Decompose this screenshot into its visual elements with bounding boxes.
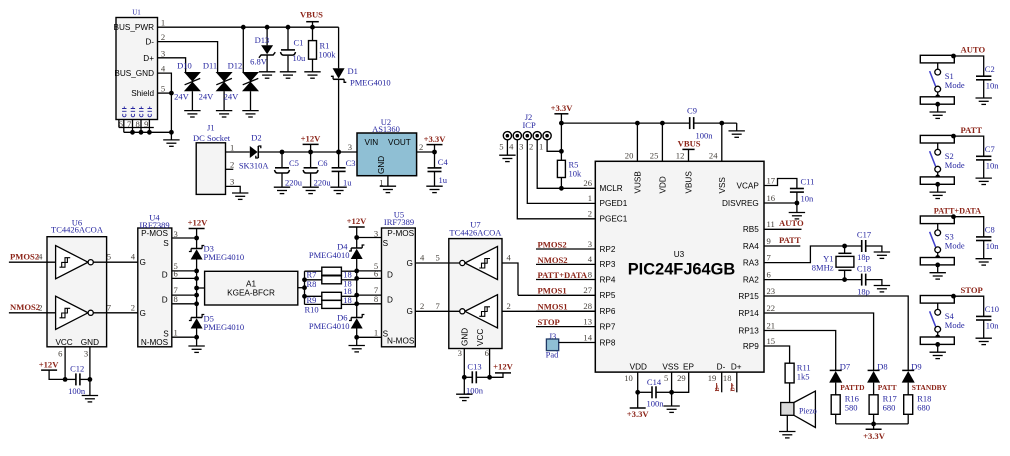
U3 right pin numbers bbox=[767, 175, 776, 345]
node PATT+DATA at RP4 bbox=[536, 270, 595, 280]
svg-text:C12: C12 bbox=[70, 364, 84, 374]
svg-text:8: 8 bbox=[588, 269, 592, 279]
wire RP13 to D7 bbox=[764, 331, 836, 371]
svg-text:15: 15 bbox=[767, 336, 776, 346]
switch S4 Mode bbox=[920, 296, 965, 347]
diode D6 PMEG4010 bbox=[309, 313, 365, 338]
svg-text:Mode: Mode bbox=[945, 80, 965, 90]
regulator U2 AS1360 bbox=[357, 117, 417, 176]
wire piezo to ground bbox=[786, 415, 788, 431]
wire RA2 to crystal bbox=[764, 277, 862, 282]
switch S1 Mode bbox=[920, 55, 965, 106]
node PMOS2 input bbox=[9, 252, 56, 263]
svg-text:100k: 100k bbox=[319, 49, 337, 59]
svg-text:U1: U1 bbox=[132, 9, 141, 17]
wire D11 to ground bbox=[223, 91, 225, 110]
svg-text:Pad: Pad bbox=[546, 350, 560, 360]
svg-text:PATTD: PATTD bbox=[840, 383, 865, 392]
svg-text:PGEC1: PGEC1 bbox=[600, 215, 628, 224]
resistor R5 10k bbox=[557, 159, 582, 178]
diode D9 bbox=[902, 361, 922, 382]
ground U6 bbox=[82, 396, 98, 402]
svg-text:RP4: RP4 bbox=[600, 275, 616, 284]
wire C1 to ground bbox=[287, 56, 289, 72]
resistor R7 18 bbox=[305, 267, 352, 279]
svg-text:C8: C8 bbox=[985, 225, 995, 235]
U3 top pin numbers bbox=[625, 151, 718, 161]
wire J2 pin1 to +3.3V node bbox=[547, 140, 564, 154]
node STANDBY bbox=[908, 383, 947, 395]
wire rail corner to D1 bbox=[338, 27, 340, 68]
svg-text:680: 680 bbox=[883, 403, 896, 413]
svg-text:19: 19 bbox=[708, 373, 717, 383]
capacitor C1 10u bbox=[281, 37, 307, 63]
svg-text:C10: C10 bbox=[985, 304, 999, 314]
svg-text:PATT: PATT bbox=[878, 383, 897, 392]
svg-text:RA3: RA3 bbox=[743, 258, 759, 267]
svg-text:6: 6 bbox=[173, 268, 178, 278]
svg-text:S: S bbox=[383, 330, 389, 339]
svg-text:28: 28 bbox=[583, 301, 592, 311]
wire R5 to MCLR bbox=[559, 178, 595, 191]
svg-text:D12: D12 bbox=[228, 60, 243, 70]
wire +3.3V rail to C9 bbox=[561, 121, 689, 126]
svg-text:RP13: RP13 bbox=[738, 326, 759, 335]
wire U4 drain bus bbox=[172, 260, 199, 318]
wire J2 pin4 to PGEC1 bbox=[517, 140, 595, 219]
svg-text:VCAP: VCAP bbox=[737, 181, 760, 190]
node STOP at RP7 bbox=[536, 317, 595, 327]
capacitor C17 18p bbox=[857, 230, 871, 262]
resistor R16 580 bbox=[831, 394, 859, 415]
svg-text:VSS: VSS bbox=[662, 362, 679, 371]
svg-text:4: 4 bbox=[131, 252, 136, 262]
svg-text:RP14: RP14 bbox=[738, 309, 759, 318]
wire VBUS top rail bbox=[158, 25, 339, 30]
svg-text:RP8: RP8 bbox=[600, 338, 616, 347]
buzzer Piezo bbox=[781, 391, 817, 427]
diode D2 SK310A bbox=[239, 133, 270, 171]
wire C8 to ground bbox=[983, 241, 985, 259]
node NMOS2 at RP3 bbox=[536, 255, 595, 265]
svg-text:24V: 24V bbox=[199, 92, 215, 102]
svg-text:N-MOS: N-MOS bbox=[387, 337, 415, 346]
svg-text:7: 7 bbox=[767, 252, 772, 262]
svg-text:4: 4 bbox=[420, 253, 425, 263]
svg-text:2: 2 bbox=[161, 32, 165, 42]
wire LED +3.3V rail bbox=[836, 422, 909, 430]
svg-text:PGED1: PGED1 bbox=[600, 199, 628, 208]
svg-text:SK310A: SK310A bbox=[239, 161, 270, 171]
svg-text:Shield: Shield bbox=[131, 89, 154, 98]
svg-text:3: 3 bbox=[84, 349, 88, 359]
svg-text:Mode: Mode bbox=[945, 320, 965, 330]
power +3.3V at U2 bbox=[424, 134, 447, 152]
svg-text:2: 2 bbox=[131, 302, 135, 312]
wire J2 pin2 to MCLR bbox=[537, 140, 561, 189]
wire C10 to ground bbox=[983, 320, 985, 338]
svg-text:D13: D13 bbox=[255, 35, 270, 45]
svg-text:G: G bbox=[407, 307, 413, 316]
wire C17 to ground bbox=[866, 246, 882, 252]
wire U5 drain bus bbox=[354, 259, 381, 318]
svg-text:2: 2 bbox=[588, 209, 592, 219]
svg-text:Mode: Mode bbox=[945, 241, 965, 251]
wire A1 left pin bbox=[197, 287, 205, 289]
wire U7 in2 to NMOS1 bbox=[502, 301, 595, 312]
svg-text:R9: R9 bbox=[307, 295, 317, 305]
svg-text:+3.3V: +3.3V bbox=[863, 431, 886, 441]
resistor R10 18 bbox=[305, 295, 352, 315]
switch S2 Mode bbox=[920, 135, 965, 186]
wire U2 GND pin1 bbox=[387, 176, 389, 187]
ground S2 bbox=[930, 184, 946, 198]
svg-text:NMOS1: NMOS1 bbox=[538, 302, 568, 312]
wire DISVREG node bbox=[764, 192, 799, 212]
power +3.3V at J2 bbox=[551, 103, 574, 160]
svg-text:22: 22 bbox=[767, 303, 776, 313]
wire U6 out7 to U4 G2 bbox=[93, 302, 138, 313]
svg-text:1u: 1u bbox=[439, 175, 448, 185]
svg-text:12: 12 bbox=[676, 151, 685, 161]
node PATTD bbox=[836, 383, 865, 395]
ground U3 VSS bbox=[663, 406, 679, 412]
svg-text:AS1360: AS1360 bbox=[372, 124, 400, 134]
svg-text:220u: 220u bbox=[285, 177, 303, 187]
svg-text:C13: C13 bbox=[467, 361, 481, 371]
wire D1 to +12V rail bbox=[336, 79, 341, 154]
node STOP at S4 bbox=[951, 285, 984, 317]
U3 bottom pin numbers bbox=[624, 373, 731, 383]
crystal Y1 8MHz bbox=[812, 246, 854, 280]
node PATT+DATA at S3 bbox=[934, 206, 984, 237]
wire C4 to ground bbox=[434, 172, 436, 187]
svg-text:DISVREG: DISVREG bbox=[722, 199, 759, 208]
wire C3 to ground bbox=[338, 171, 340, 187]
ground U5 bbox=[349, 346, 365, 352]
svg-text:D11: D11 bbox=[203, 60, 217, 70]
ground D13 bbox=[259, 72, 275, 78]
svg-text:PMEG4010: PMEG4010 bbox=[309, 321, 350, 331]
connector J3 Pad bbox=[546, 331, 596, 360]
svg-text:IRF7389: IRF7389 bbox=[384, 217, 414, 227]
svg-text:C1: C1 bbox=[294, 37, 304, 47]
wire U4 S3 to +12V bbox=[172, 236, 199, 241]
ground D12 bbox=[242, 111, 258, 117]
svg-text:18p: 18p bbox=[857, 252, 870, 262]
svg-text:21: 21 bbox=[767, 320, 776, 330]
ground C2 bbox=[976, 98, 992, 104]
svg-text:R10: R10 bbox=[305, 305, 319, 315]
svg-text:VBUS: VBUS bbox=[678, 139, 701, 149]
ground C4 bbox=[426, 186, 442, 192]
svg-text:RP7: RP7 bbox=[600, 322, 616, 331]
ground C6 bbox=[302, 187, 318, 193]
svg-text:PMOS2: PMOS2 bbox=[10, 252, 39, 262]
svg-text:G: G bbox=[140, 309, 146, 318]
ground C3 bbox=[330, 187, 346, 193]
connector J2 ICP header bbox=[499, 112, 551, 151]
svg-text:24V: 24V bbox=[174, 92, 190, 102]
svg-text:6: 6 bbox=[374, 268, 379, 278]
svg-text:RP2: RP2 bbox=[600, 245, 616, 254]
resistor R18 680 bbox=[904, 394, 932, 415]
svg-text:STANDBY: STANDBY bbox=[912, 383, 948, 392]
wire U7 GND pin3 bbox=[458, 348, 465, 377]
wire RP15 to D9 bbox=[764, 296, 908, 370]
wire D10 to ground bbox=[191, 91, 193, 110]
diode D8 bbox=[867, 361, 888, 382]
ground C10 bbox=[976, 338, 992, 344]
svg-text:D: D bbox=[387, 271, 393, 280]
svg-text:VCC: VCC bbox=[476, 329, 485, 346]
node PMOS1 at RP5 bbox=[518, 286, 595, 296]
svg-text:580: 580 bbox=[845, 403, 858, 413]
svg-text:3: 3 bbox=[230, 177, 234, 187]
svg-text:+12V: +12V bbox=[39, 360, 59, 370]
electromagnet A1 KGEA-BFCR bbox=[205, 271, 298, 305]
resistor R8 18 bbox=[305, 276, 352, 289]
wire U3 VDD pin10 bbox=[635, 372, 640, 395]
wire U5 G4 to U7 out5 bbox=[415, 253, 459, 264]
driver U7 TC4426ACOA bbox=[449, 219, 502, 348]
svg-text:4: 4 bbox=[161, 64, 166, 74]
ground C8 bbox=[976, 259, 992, 265]
svg-text:GND: GND bbox=[461, 328, 470, 346]
svg-text:P-MOS: P-MOS bbox=[387, 229, 414, 238]
svg-text:S: S bbox=[163, 239, 169, 248]
svg-text:3: 3 bbox=[588, 239, 592, 249]
svg-text:5: 5 bbox=[436, 253, 440, 263]
op-amp U6 inverter B bbox=[56, 296, 94, 329]
capacitor C8 10n bbox=[976, 225, 999, 252]
svg-text:27: 27 bbox=[583, 285, 592, 295]
svg-text:AUTO: AUTO bbox=[961, 45, 986, 55]
svg-text:5: 5 bbox=[664, 373, 668, 383]
transistor pair U4 IRF7389 bbox=[138, 212, 172, 347]
svg-text:+12V: +12V bbox=[188, 218, 208, 228]
svg-text:23: 23 bbox=[767, 286, 776, 296]
svg-text:5: 5 bbox=[499, 141, 503, 151]
svg-text:RP5: RP5 bbox=[600, 291, 616, 300]
svg-text:C3: C3 bbox=[346, 158, 356, 168]
svg-text:C9: C9 bbox=[687, 106, 697, 116]
svg-text:16: 16 bbox=[767, 193, 776, 203]
svg-text:7: 7 bbox=[127, 119, 132, 129]
svg-text:D: D bbox=[162, 295, 168, 304]
diode D10 24V TVS bbox=[174, 60, 201, 101]
diode D4 PMEG4010 bbox=[309, 238, 365, 261]
wire J1 pin1 to D2 bbox=[226, 151, 250, 153]
node NMOS2 input bbox=[9, 302, 56, 313]
svg-text:25: 25 bbox=[650, 151, 659, 161]
wire U3 EP pin29 bbox=[672, 372, 689, 392]
wire R17 to rail bbox=[873, 414, 875, 424]
svg-text:NMOS2: NMOS2 bbox=[538, 255, 568, 265]
wire J2 pin5 to ground bbox=[506, 140, 508, 155]
transistor pair U5 IRF7389 bbox=[382, 210, 416, 347]
svg-text:D: D bbox=[162, 271, 168, 280]
svg-text:STOP: STOP bbox=[538, 317, 560, 327]
svg-text:4: 4 bbox=[509, 141, 514, 151]
svg-text:10n: 10n bbox=[986, 81, 1000, 91]
svg-text:3: 3 bbox=[519, 141, 523, 151]
svg-text:1: 1 bbox=[588, 193, 592, 203]
ground U7 bbox=[456, 394, 472, 400]
wire R11 to piezo bbox=[789, 383, 791, 403]
svg-text:C2: C2 bbox=[985, 64, 995, 74]
node D+ flag bbox=[730, 383, 736, 392]
svg-text:D+: D+ bbox=[731, 362, 742, 371]
wire U3 D- pin19 bbox=[721, 372, 723, 392]
svg-text:PMEG4010: PMEG4010 bbox=[350, 77, 391, 87]
svg-text:RB5: RB5 bbox=[743, 225, 759, 234]
svg-text:BUS_GND: BUS_GND bbox=[114, 69, 154, 78]
wire RP14 to D8 bbox=[764, 313, 874, 370]
power +3.3V at LEDs bbox=[863, 429, 886, 441]
svg-text:3: 3 bbox=[161, 48, 165, 58]
svg-text:PATT: PATT bbox=[779, 235, 801, 245]
wire U6 out5 to U4 G4 bbox=[93, 252, 138, 263]
svg-text:D-: D- bbox=[145, 38, 154, 47]
wire +12V rail bbox=[258, 150, 357, 155]
U1 mount pin stubs wires bbox=[124, 120, 150, 133]
svg-text:2: 2 bbox=[420, 301, 424, 311]
wire rail to C5 bbox=[281, 152, 283, 168]
wire VDD pin25 bbox=[661, 123, 663, 161]
power VBUS bbox=[300, 10, 323, 28]
svg-text:VCC: VCC bbox=[55, 338, 72, 347]
svg-text:Mode: Mode bbox=[945, 160, 965, 170]
svg-text:C4: C4 bbox=[438, 157, 449, 167]
wire D+ to D10 bbox=[158, 58, 186, 72]
svg-text:11: 11 bbox=[767, 219, 775, 229]
wire C2 to ground bbox=[983, 80, 985, 98]
wire rail to D12 bbox=[242, 27, 244, 72]
svg-text:17: 17 bbox=[767, 175, 776, 185]
svg-text:18: 18 bbox=[723, 373, 732, 383]
capacitor C10 10n bbox=[976, 304, 999, 331]
ground C5 bbox=[274, 187, 290, 193]
svg-text:26: 26 bbox=[583, 178, 592, 188]
svg-text:9: 9 bbox=[144, 119, 148, 129]
node VBUS at pin12 bbox=[678, 139, 701, 162]
wire D- to D11 bbox=[158, 42, 218, 72]
svg-text:A1: A1 bbox=[246, 280, 256, 289]
ground S1 bbox=[930, 104, 946, 118]
ground C18 bbox=[874, 286, 890, 292]
wire rail to C1 bbox=[287, 27, 289, 50]
svg-text:6: 6 bbox=[58, 349, 63, 359]
wire U6 VCC pin6 bbox=[58, 347, 65, 380]
svg-text:D1: D1 bbox=[348, 66, 358, 76]
svg-text:2: 2 bbox=[506, 301, 510, 311]
svg-text:4: 4 bbox=[38, 252, 43, 262]
diode D5 PMEG4010 bbox=[189, 314, 244, 338]
svg-text:+3.3V: +3.3V bbox=[627, 409, 650, 419]
svg-text:TC4426ACOA: TC4426ACOA bbox=[51, 225, 104, 235]
wire RA3 to crystal bbox=[764, 244, 862, 263]
switch S3 Mode bbox=[920, 216, 965, 267]
capacitor C5 220u bbox=[275, 158, 303, 187]
svg-text:D-: D- bbox=[717, 362, 726, 371]
svg-text:C6: C6 bbox=[318, 158, 328, 168]
svg-text:220u: 220u bbox=[314, 177, 332, 187]
svg-text:C17: C17 bbox=[857, 230, 871, 240]
capacitor C3 1u bbox=[332, 158, 356, 187]
svg-text:13: 13 bbox=[583, 316, 592, 326]
svg-text:680: 680 bbox=[917, 403, 930, 413]
capacitor C13 100n bbox=[462, 361, 492, 395]
capacitor C2 10n bbox=[976, 64, 999, 91]
wire VCAP to C11 bbox=[764, 179, 797, 189]
ground R1 bbox=[304, 72, 320, 78]
wire U4 S1 to ground bbox=[172, 335, 199, 346]
svg-text:100n: 100n bbox=[68, 386, 86, 396]
wire rail to C6 bbox=[310, 152, 312, 168]
wire C6 to ground bbox=[310, 174, 312, 188]
svg-text:RP3: RP3 bbox=[600, 260, 616, 269]
diode D7 bbox=[829, 361, 850, 382]
svg-text:RA4: RA4 bbox=[743, 242, 759, 251]
node AUTO at S1 bbox=[951, 45, 985, 76]
svg-text:1: 1 bbox=[539, 141, 543, 151]
svg-text:VDD: VDD bbox=[659, 176, 668, 193]
svg-text:5: 5 bbox=[107, 252, 111, 262]
svg-text:STOP: STOP bbox=[961, 285, 983, 295]
diode D12 24V TVS bbox=[224, 60, 259, 101]
diode D3 PMEG4010 bbox=[189, 238, 244, 262]
op-amp U7 inverter B bbox=[460, 295, 498, 328]
svg-text:2: 2 bbox=[529, 141, 533, 151]
diode D13 zener 6.8V bbox=[250, 35, 275, 67]
svg-text:10n: 10n bbox=[986, 161, 1000, 171]
wire rail to C3 bbox=[338, 152, 340, 168]
ground piezo bbox=[779, 432, 795, 438]
svg-text:P-MOS: P-MOS bbox=[141, 229, 168, 238]
node AUTO at RB5 bbox=[764, 218, 804, 229]
svg-text:EP: EP bbox=[683, 362, 694, 371]
ground J2 bbox=[499, 155, 515, 161]
wire U3 VSS pin5 bbox=[669, 372, 674, 395]
wire C18 to ground bbox=[866, 280, 882, 286]
wire U5 S1 to ground bbox=[354, 335, 381, 346]
svg-text:D9: D9 bbox=[911, 361, 921, 371]
svg-text:6: 6 bbox=[119, 119, 124, 129]
svg-text:24V: 24V bbox=[224, 92, 240, 102]
svg-text:10k: 10k bbox=[569, 169, 583, 179]
wire J1 pin3 to ground bbox=[226, 186, 241, 193]
wire R18 to rail bbox=[907, 414, 909, 424]
wire D12 to ground bbox=[250, 91, 252, 110]
svg-text:PMEG4010: PMEG4010 bbox=[204, 252, 245, 262]
svg-text:29: 29 bbox=[677, 373, 686, 383]
svg-text:8: 8 bbox=[135, 119, 139, 129]
U4 pin numbers bbox=[173, 229, 178, 337]
wire U5 G2 to U7 out7 bbox=[415, 301, 459, 312]
svg-text:4: 4 bbox=[588, 254, 593, 264]
capacitor C12 100n bbox=[65, 364, 92, 397]
wire rail to R1 bbox=[312, 27, 314, 40]
ground C11 bbox=[789, 213, 805, 219]
wire J1 pin2 stub bbox=[226, 168, 234, 170]
svg-text:1: 1 bbox=[173, 327, 177, 337]
svg-text:2: 2 bbox=[38, 302, 42, 312]
wire D13 to ground bbox=[266, 55, 268, 72]
svg-text:+12V: +12V bbox=[301, 134, 321, 144]
svg-text:3: 3 bbox=[458, 348, 462, 358]
svg-text:ICP: ICP bbox=[522, 120, 536, 130]
